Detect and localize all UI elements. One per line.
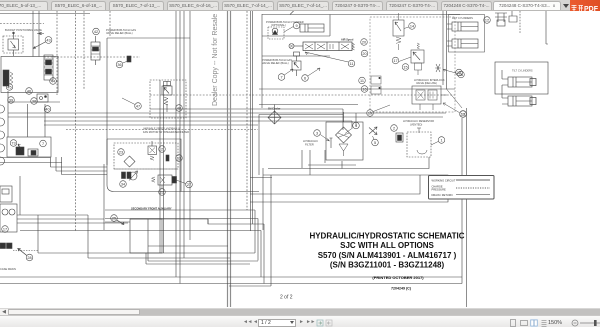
lift cylinder LC2	[447, 39, 478, 48]
scroll left button	[0, 309, 8, 316]
hydrostatic pump P1 circle	[0, 105, 5, 113]
main control spool valve SV1	[289, 42, 355, 51]
bobtach staircase upper	[302, 150, 310, 175]
legend box	[429, 176, 495, 200]
tilt cylinder TC1	[502, 77, 536, 87]
bottom wire y253-264	[38, 253, 250, 264]
hydrostatic pump P3 circle	[0, 131, 5, 139]
long wire y230	[20, 230, 261, 232]
zoom percent	[548, 320, 562, 326]
svg-text:38: 38	[32, 100, 36, 104]
svg-text:DRAIN / RETURN: DRAIN / RETURN	[432, 193, 453, 197]
wire dashed y23.5	[0, 23, 44, 25]
dashed vertical x520	[519, 11, 521, 34]
next page icon	[299, 319, 303, 326]
drive motor box	[259, 105, 358, 176]
long vertical wire x466	[466, 108, 468, 307]
return line long y168.5	[268, 157, 429, 169]
item 22b callout	[159, 189, 166, 196]
single page icon	[509, 319, 517, 327]
svg-text:AIR Spool: AIR Spool	[341, 38, 354, 42]
svg-text:2: 2	[161, 148, 163, 152]
svg-text:PRESSURE: PRESSURE	[432, 188, 447, 192]
wire dashed vertical x84	[83, 11, 85, 90]
diagonal wire to item18	[447, 89, 463, 108]
svg-text:9: 9	[295, 24, 297, 28]
svg-text:27: 27	[187, 183, 191, 187]
wire dashed vertical x75	[75, 11, 77, 232]
item 7 callout center	[278, 74, 285, 81]
foxit pdf logo	[570, 0, 600, 11]
svg-text:FAN MOTOR W/ INTEGRATED FILTER: FAN MOTOR W/ INTEGRATED FILTER	[143, 130, 189, 134]
zoom slider	[580, 319, 600, 327]
svg-text:13: 13	[177, 157, 181, 161]
page number box	[258, 319, 296, 327]
svg-text:FILTER: FILTER	[305, 143, 314, 147]
wire left pump risers	[8, 91, 45, 137]
wire top-left horizontal y13.5	[0, 13, 90, 15]
svg-text:4: 4	[355, 124, 357, 128]
return loop y175-202	[250, 175, 448, 202]
item 9 callout	[293, 22, 300, 29]
fan motor dashed box	[114, 143, 178, 169]
svg-text:7204249 (C): 7204249 (C)	[391, 287, 412, 291]
check valve CV2 small	[37, 94, 48, 102]
svg-text:CASE DRAIN: CASE DRAIN	[0, 267, 16, 271]
fan motor outer box	[107, 139, 259, 192]
svg-text:44: 44	[51, 80, 55, 84]
hydrostatic pump P2 circle	[0, 118, 5, 126]
small relief valve RV2	[292, 52, 301, 76]
hydrostatic pump P4 circle	[0, 144, 5, 152]
svg-text:46: 46	[27, 90, 31, 94]
item 2b callout	[159, 146, 166, 153]
item 18 callout	[458, 71, 465, 78]
vertical wire x263 lower	[262, 168, 264, 230]
browser tab bar	[0, 0, 600, 11]
item 1 callout	[438, 137, 445, 144]
first page icon	[243, 319, 252, 326]
svg-text:23: 23	[119, 151, 123, 155]
status bar	[0, 315, 600, 327]
tilt cylinders box	[495, 62, 548, 94]
spring for S1	[10, 72, 13, 84]
item 23 callout	[118, 149, 125, 156]
prev page icon	[253, 319, 257, 326]
variable pump circle	[129, 171, 138, 181]
wire y36	[262, 15, 330, 57]
fan relief valve	[148, 141, 157, 160]
svg-text:(VENTED): (VENTED)	[410, 123, 422, 127]
horizontal scrollbar	[0, 308, 600, 315]
svg-text:20: 20	[362, 52, 366, 56]
bypass arrows	[369, 127, 377, 135]
svg-text:43: 43	[46, 39, 50, 43]
wire top center y14.5	[262, 11, 460, 15]
svg-text:2: 2	[393, 127, 395, 131]
long vertical wire x190	[189, 11, 191, 230]
return wire bundle y150-170	[0, 158, 107, 175]
interlock spool block	[412, 86, 447, 110]
svg-text:5: 5	[374, 141, 376, 145]
long bottom horizontals	[0, 277, 462, 284]
fan check diamond	[124, 156, 135, 167]
item 17 callout	[392, 57, 399, 64]
facing pages icon active	[530, 319, 538, 327]
flow restrictor	[435, 64, 441, 72]
hydrostatic pump P5 circle	[0, 157, 5, 165]
svg-text:19: 19	[368, 112, 372, 116]
tilt cylinder TC2	[502, 96, 536, 106]
wire dashed horizontal y57	[44, 56, 140, 58]
vertical drops bottom	[20, 164, 190, 264]
svg-text:7: 7	[280, 76, 282, 80]
pilot valve block items 73 7	[7, 137, 51, 157]
gear pump dark pair	[0, 243, 38, 251]
svg-text:1: 1	[440, 139, 442, 143]
charge dashed wire y129.5	[66, 129, 258, 131]
assembly box right x107	[107, 38, 190, 165]
item 4 callout	[353, 122, 360, 129]
hydraulic reservoir dashed box	[407, 128, 431, 157]
long vertical wire x163	[163, 85, 165, 253]
continuous icon	[540, 319, 548, 327]
svg-text:12: 12	[461, 113, 465, 117]
long vertical wire x462	[461, 118, 463, 277]
wire staircase center left	[250, 177, 272, 179]
long vertical wire x184	[183, 11, 185, 258]
item 28 callout	[26, 254, 33, 261]
bobtach check valve CV3	[268, 27, 284, 39]
fan solenoid ticks	[122, 172, 126, 179]
feeder verticals to fan bundle	[51, 157, 62, 175]
long vertical wire x176	[175, 11, 177, 277]
funnel symbol	[339, 144, 348, 156]
long vertical wires x443 x446	[443, 11, 447, 89]
enclosure box left assembly	[1, 57, 58, 93]
pilot circuit dashed enclosure	[370, 17, 455, 112]
accumulator A2 column	[91, 36, 100, 65]
svg-text:22: 22	[160, 191, 164, 195]
item 43 callout	[33, 37, 52, 49]
item 45 callout	[6, 84, 12, 90]
bobtach cylinder	[300, 24, 324, 32]
svg-text:18: 18	[457, 71, 461, 75]
svg-text:11: 11	[350, 62, 354, 66]
svg-text:TILT CYLINDERS: TILT CYLINDERS	[512, 69, 533, 73]
vertical wire x262	[261, 14, 263, 108]
svg-text:WORKING CIRCUIT: WORKING CIRCUIT	[432, 179, 456, 183]
item 27 callout	[186, 181, 193, 188]
item 20 callout	[361, 39, 368, 46]
scroll thumb	[8, 309, 140, 315]
item 19 callout	[367, 110, 374, 117]
prev view icon	[316, 319, 324, 327]
svg-text:40: 40	[45, 108, 49, 112]
item 18 callout	[456, 69, 463, 76]
item 11 callout	[348, 60, 355, 67]
svg-text:LIFT CYLINDERS: LIFT CYLINDERS	[452, 16, 473, 20]
title block	[309, 232, 464, 291]
wire dashed vertical x110	[109, 11, 111, 36]
item 20 callout	[361, 50, 368, 57]
long vertical wire x180	[179, 11, 181, 284]
svg-text:15: 15	[403, 66, 407, 70]
item 7 callout left	[40, 140, 47, 147]
secondary aux staircase wires	[105, 210, 271, 286]
item 42 callout	[93, 28, 100, 35]
item 12 callout	[484, 17, 491, 24]
svg-text:14: 14	[410, 25, 414, 29]
svg-text:12: 12	[485, 19, 489, 23]
svg-text:PDF: PDF	[584, 6, 599, 13]
svg-text:(OPTIONAL): (OPTIONAL)	[271, 23, 286, 27]
relief valve RV1	[150, 80, 186, 118]
fan motor spool	[152, 175, 177, 185]
svg-text:(S/N B3GZ11001 - B3GZ11248): (S/N B3GZ11001 - B3GZ11248)	[330, 261, 445, 270]
wire horizontal y102	[8, 101, 60, 103]
svg-text:(PRINTED OCTOBER 2017): (PRINTED OCTOBER 2017)	[372, 275, 424, 280]
svg-text:VALVE (DELUXE): VALVE (DELUXE)	[416, 81, 437, 85]
lift cylinder enclosure	[449, 15, 485, 53]
item 2 callout	[391, 125, 398, 132]
item 6 callout	[302, 75, 309, 82]
hydraulic filter assembly	[326, 112, 363, 160]
bottom wire bundle y215-223	[17, 215, 258, 223]
svg-text:2 of 2: 2 of 2	[280, 295, 293, 301]
svg-text:VALVE RELIEF (BALL): VALVE RELIEF (BALL)	[106, 31, 133, 35]
item 25 callout	[111, 215, 118, 222]
suction wire short	[308, 150, 356, 169]
charge wire bundle y109-129	[8, 109, 446, 125]
dark orifice tick	[166, 155, 169, 161]
next view icon	[325, 319, 333, 327]
svg-text:16: 16	[362, 88, 366, 92]
wire y89	[259, 88, 455, 90]
solenoid block S1	[3, 70, 9, 86]
item 34 callout	[120, 181, 127, 188]
svg-text:3: 3	[316, 132, 318, 136]
svg-text:73: 73	[11, 142, 15, 146]
wire tilt feed	[502, 11, 548, 98]
item 73 callout	[10, 140, 17, 147]
svg-text:Dealer Copy -- Not for Resale: Dealer Copy -- Not for Resale	[212, 14, 219, 106]
lift cylinder LC1	[447, 22, 478, 31]
item 47 callout	[135, 103, 142, 110]
tick 35	[37, 32, 44, 34]
svg-text:HYDRAULIC RESERVOIR: HYDRAULIC RESERVOIR	[403, 119, 434, 123]
dashed return line y90.5	[150, 94, 455, 96]
top right small valves	[495, 11, 517, 26]
dashed vertical x247	[246, 11, 248, 210]
fit width icon	[520, 319, 528, 327]
gray bus line pair upper	[228, 11, 231, 307]
item 16 callout	[361, 86, 368, 93]
item 17b callout	[2, 226, 9, 233]
item 13b callout	[460, 111, 467, 118]
vertical wire x250.5	[250, 11, 252, 231]
wire turns down to filter	[343, 109, 356, 130]
svg-text:6: 6	[304, 77, 306, 81]
wire dashed vertical x57	[56, 11, 58, 95]
item 44 callout	[50, 78, 57, 85]
long vertical wire x160	[159, 80, 161, 253]
secondary aux wire square	[130, 219, 162, 253]
svg-text:HYDRAULIC/HYDROSTATIC SCHEMATI: HYDRAULIC/HYDROSTATIC SCHEMATIC	[309, 232, 464, 241]
breather component	[396, 133, 403, 142]
solenoid valve V1 in dashed box	[3, 32, 23, 56]
item 46 callout	[26, 88, 33, 95]
svg-text:S570 (S/N ALM413901 - ALM41671: S570 (S/N ALM413901 - ALM416717 )	[318, 251, 457, 260]
svg-text:47: 47	[136, 105, 140, 109]
svg-text:17: 17	[3, 228, 7, 232]
svg-text:42: 42	[94, 30, 98, 34]
zoom out icon	[571, 319, 579, 327]
item 36 callout	[116, 56, 131, 68]
dashed mid line	[114, 168, 178, 170]
item 38 callout	[31, 98, 38, 105]
item 48 callout	[176, 105, 183, 112]
svg-text:34: 34	[121, 183, 125, 187]
svg-text:28: 28	[27, 256, 31, 260]
oil cooler	[268, 105, 281, 125]
svg-text:HYDRAULIC: HYDRAULIC	[303, 139, 318, 143]
last page icon	[306, 319, 315, 326]
svg-text:20: 20	[362, 41, 366, 45]
wire vertical x33 x39	[33, 11, 39, 57]
item 12b callout	[460, 111, 467, 118]
vertical wire x252.5	[252, 11, 254, 224]
item 40 callout	[44, 106, 51, 113]
sequence valve with spring	[411, 43, 424, 75]
return line y194	[250, 175, 420, 194]
svg-text:VALVE RELIEF (BALL): VALVE RELIEF (BALL)	[262, 61, 289, 65]
svg-text:SJC WITH ALL OPTIONS: SJC WITH ALL OPTIONS	[340, 241, 434, 250]
svg-text:36: 36	[117, 63, 121, 67]
item 13 callout fan	[176, 155, 183, 162]
item 5 callout	[372, 139, 379, 146]
dual pilot valves items 11 16	[371, 76, 381, 94]
svg-text:11: 11	[360, 79, 364, 83]
pilot relief valve item 14	[393, 13, 404, 50]
item 3 callout	[314, 130, 321, 137]
svg-text:45: 45	[7, 86, 11, 90]
svg-text:48: 48	[177, 107, 181, 111]
item 39 callout	[8, 97, 15, 104]
item 14 callout	[409, 23, 416, 30]
svg-text:17: 17	[393, 59, 397, 63]
item 11b callout	[359, 77, 366, 84]
secondary aux verticals	[148, 175, 271, 286]
pump assembly small box bottom left	[0, 186, 17, 232]
svg-text:BUCKET POSITIONING VALVE: BUCKET POSITIONING VALVE	[5, 28, 42, 32]
item 15 callout	[402, 64, 409, 71]
svg-text:7: 7	[42, 142, 44, 146]
tab dropdown arrow	[563, 4, 569, 8]
accumulator A1 hatched	[44, 55, 53, 80]
